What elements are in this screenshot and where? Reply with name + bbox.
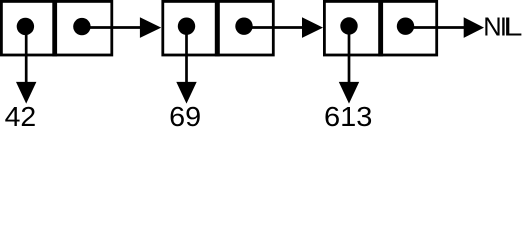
node 1 divider (52, 0, 57, 56)
down arrow node2 head (176, 82, 196, 104)
node 1 cdr dot (73, 18, 90, 35)
wire: node1 cdr dot to border (82, 26, 111, 29)
down arrow node3 head (339, 82, 359, 104)
arrow node2 -> node3 head (302, 17, 323, 38)
down arrow node2 shaft (185, 26, 188, 83)
node 3 cdr dot (397, 18, 414, 35)
down arrow node3 shaft (348, 26, 351, 83)
arrow node2 -> node3 shaft (273, 26, 304, 29)
node 2 divider (215, 0, 220, 56)
node 3 (cons cell 3) box (324, 1, 436, 55)
node 2 (cons cell 2) box (163, 1, 273, 55)
node 1 (cons cell 1) box (1, 1, 111, 55)
svg-text:L: L (503, 14, 522, 42)
down arrow node1 head (16, 82, 36, 104)
node 2 car dot (178, 18, 195, 35)
arrow node1 -> node2 head (140, 17, 161, 38)
node 1 car dot (17, 18, 34, 35)
svg-text:613: 613 (324, 101, 372, 128)
node 3 divider (378, 0, 383, 56)
arrow node3 -> NIL shaft (436, 26, 465, 29)
arrow node1 -> node2 shaft (111, 26, 141, 29)
down arrow node1 shaft (25, 26, 28, 83)
node 2 cdr dot (235, 18, 252, 35)
arrow node3 -> NIL head (464, 17, 484, 38)
svg-text:69: 69 (169, 101, 201, 128)
wire: node2 cdr dot to border (244, 26, 273, 29)
wire: node3 cdr dot to border (406, 26, 437, 29)
node 3 car dot (340, 17, 357, 34)
svg-text:42: 42 (5, 101, 37, 128)
